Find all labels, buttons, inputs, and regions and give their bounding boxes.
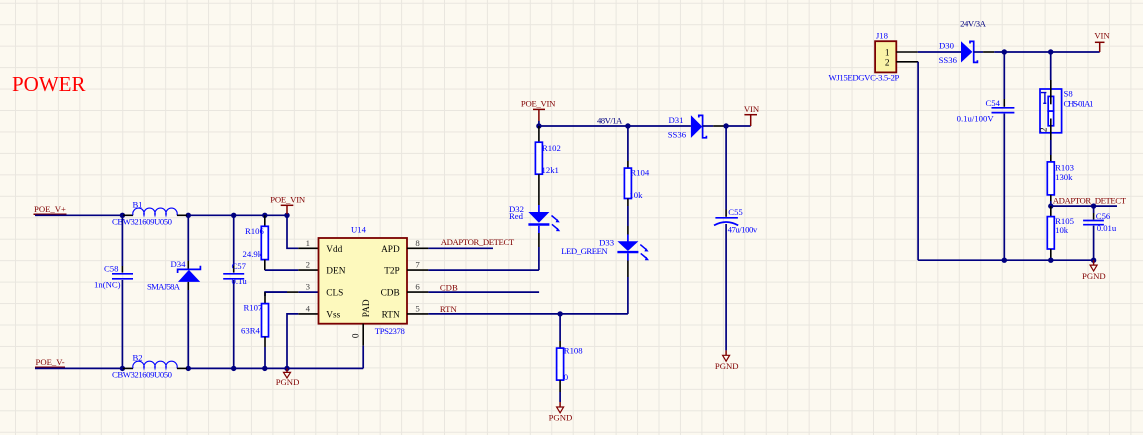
svg-text:7: 7 bbox=[415, 260, 420, 270]
wire J18 pin1 bbox=[896, 51, 961, 53]
svg-text:D31: D31 bbox=[669, 115, 684, 125]
diode D34 SMAJ58A bbox=[147, 215, 200, 368]
svg-text:APD: APD bbox=[381, 245, 400, 255]
resistor R108 bbox=[557, 314, 584, 402]
svg-text:4: 4 bbox=[306, 303, 311, 313]
wire pin4 Vss bbox=[287, 314, 320, 369]
connector J18 bbox=[829, 30, 900, 82]
net ADAPTOR_DETECT right bbox=[1048, 196, 1127, 209]
wire pin6 CDB bbox=[407, 282, 539, 292]
svg-text:POE_VIN: POE_VIN bbox=[270, 194, 306, 204]
op-amp U14 TPS2378 bbox=[306, 225, 421, 339]
inductor B1 bbox=[112, 200, 187, 227]
svg-text:CHS-01A1: CHS-01A1 bbox=[1064, 99, 1094, 109]
svg-text:Red: Red bbox=[509, 211, 524, 221]
wire POE_V- rail bbox=[35, 367, 363, 369]
wire pin7 T2P bbox=[407, 269, 539, 271]
svg-text:T2P: T2P bbox=[384, 267, 400, 277]
LED D32 Red bbox=[509, 204, 560, 270]
wire 48V rail bbox=[536, 115, 691, 128]
svg-text:10k: 10k bbox=[1055, 225, 1069, 235]
svg-text:12k1: 12k1 bbox=[542, 165, 559, 175]
capacitor C55 bbox=[714, 126, 758, 350]
svg-text:C55: C55 bbox=[728, 207, 742, 217]
capacitor C54 bbox=[957, 52, 1015, 260]
svg-text:24V/3A: 24V/3A bbox=[960, 18, 987, 28]
port VIN right bbox=[1094, 30, 1110, 52]
svg-text:R102: R102 bbox=[542, 143, 561, 153]
wire bottom rail right bbox=[918, 258, 1096, 263]
resistor R106 bbox=[243, 215, 269, 270]
wire POE_V+ rail bbox=[35, 214, 287, 216]
svg-text:C56: C56 bbox=[1096, 211, 1111, 221]
svg-text:PGND: PGND bbox=[549, 413, 573, 423]
wire 24V rail bbox=[994, 49, 1099, 54]
svg-text:POWER: POWER bbox=[12, 72, 86, 96]
svg-text:D34: D34 bbox=[171, 259, 187, 269]
capacitor C58 bbox=[94, 215, 133, 368]
svg-text:U14: U14 bbox=[351, 225, 367, 235]
svg-text:R106: R106 bbox=[245, 226, 264, 236]
svg-text:DEN: DEN bbox=[326, 267, 345, 277]
pin 0 PAD wire bbox=[362, 324, 364, 369]
svg-text:R104: R104 bbox=[630, 168, 649, 178]
wire pin1 Vdd from POE_VIN bbox=[287, 215, 320, 248]
svg-text:ADAPTOR_DETECT: ADAPTOR_DETECT bbox=[441, 237, 515, 247]
title POWER bbox=[12, 72, 86, 96]
svg-text:CBW321609U050: CBW321609U050 bbox=[112, 370, 173, 380]
svg-text:S8: S8 bbox=[1064, 88, 1074, 98]
svg-text:10k: 10k bbox=[629, 190, 643, 200]
resistor R105 bbox=[1047, 206, 1074, 260]
svg-text:C57: C57 bbox=[232, 261, 247, 271]
svg-text:CLS: CLS bbox=[326, 289, 343, 299]
switch S8 CHS-01A1 bbox=[1040, 52, 1094, 155]
svg-text:WJ15EDGVC-3.5-2P: WJ15EDGVC-3.5-2P bbox=[829, 73, 900, 83]
ground PGND left bbox=[276, 368, 300, 387]
wire to VIN bbox=[723, 123, 750, 128]
svg-text:R108: R108 bbox=[564, 346, 583, 356]
svg-text:8: 8 bbox=[415, 238, 420, 248]
svg-text:POE_V+: POE_V+ bbox=[34, 204, 66, 214]
svg-text:3: 3 bbox=[306, 282, 311, 292]
svg-text:6: 6 bbox=[415, 282, 420, 292]
svg-text:SS36: SS36 bbox=[939, 55, 958, 65]
port POE_VIN middle bbox=[521, 98, 556, 126]
net label 24V/3A bbox=[960, 18, 987, 28]
svg-text:LED_GREEN: LED_GREEN bbox=[561, 246, 608, 256]
svg-text:POE_VIN: POE_VIN bbox=[521, 98, 556, 108]
svg-text:PAD: PAD bbox=[362, 299, 372, 317]
diode D31 SS36 bbox=[668, 115, 726, 140]
node junction dots bottom rail bbox=[120, 366, 290, 371]
svg-text:5: 5 bbox=[415, 303, 420, 313]
svg-text:POE_V-: POE_V- bbox=[36, 357, 65, 367]
LED D33 LED_GREEN bbox=[561, 237, 649, 314]
svg-text:B2: B2 bbox=[133, 353, 143, 363]
diode D30 SS36 bbox=[939, 41, 995, 65]
port VIN middle bbox=[744, 104, 760, 126]
port POE_V- bbox=[35, 357, 65, 367]
svg-text:2: 2 bbox=[306, 260, 310, 270]
svg-text:CDB: CDB bbox=[440, 282, 458, 292]
svg-text:0.1u: 0.1u bbox=[232, 276, 248, 286]
svg-text:PGND: PGND bbox=[715, 361, 739, 371]
svg-text:CBW321609U050: CBW321609U050 bbox=[112, 217, 173, 227]
svg-text:B1: B1 bbox=[133, 200, 143, 210]
svg-text:1: 1 bbox=[885, 48, 890, 58]
svg-text:PGND: PGND bbox=[1082, 271, 1106, 281]
svg-text:Vdd: Vdd bbox=[326, 245, 342, 255]
svg-text:0: 0 bbox=[564, 372, 569, 382]
svg-text:24.9k: 24.9k bbox=[243, 249, 263, 259]
capacitor C56 bbox=[1083, 206, 1117, 260]
svg-text:R107: R107 bbox=[244, 302, 263, 312]
svg-text:48V/1A: 48V/1A bbox=[597, 115, 623, 125]
resistor R104 bbox=[624, 168, 649, 243]
port POE_V+ bbox=[34, 204, 67, 214]
svg-text:RTN: RTN bbox=[440, 304, 458, 314]
ground PGND C55 bbox=[715, 350, 739, 371]
svg-text:VIN: VIN bbox=[1094, 30, 1110, 40]
wire pin2 DEN bbox=[265, 269, 320, 271]
wire pin8 APD / ADAPTOR_DETECT bbox=[407, 237, 515, 248]
resistor R102 bbox=[535, 126, 560, 213]
svg-text:PGND: PGND bbox=[276, 377, 300, 387]
capacitor C57 bbox=[223, 215, 247, 368]
svg-text:Vss: Vss bbox=[326, 311, 340, 321]
wire pin5 RTN bbox=[407, 304, 628, 317]
svg-text:C58: C58 bbox=[104, 264, 119, 274]
svg-text:47u/100v: 47u/100v bbox=[728, 225, 758, 235]
wire J18 pin2 down bbox=[896, 62, 918, 260]
svg-text:VIN: VIN bbox=[744, 104, 760, 114]
svg-text:1: 1 bbox=[306, 238, 310, 248]
ground PGND R108 bbox=[549, 402, 573, 423]
node junction dots top rail bbox=[120, 213, 290, 218]
svg-text:J18: J18 bbox=[876, 30, 889, 40]
ground PGND right bbox=[1082, 260, 1106, 281]
svg-text:ADAPTOR_DETECT: ADAPTOR_DETECT bbox=[1053, 196, 1127, 206]
svg-text:0.01u: 0.01u bbox=[1097, 223, 1117, 233]
svg-text:CDB: CDB bbox=[381, 289, 400, 299]
svg-text:2: 2 bbox=[1040, 127, 1050, 132]
svg-text:1n(NC): 1n(NC) bbox=[94, 280, 121, 290]
svg-text:SMAJ58A: SMAJ58A bbox=[147, 282, 181, 292]
svg-text:TPS2378: TPS2378 bbox=[375, 326, 406, 336]
inductor B2 bbox=[112, 353, 187, 380]
svg-text:D30: D30 bbox=[939, 41, 955, 51]
svg-text:0: 0 bbox=[351, 333, 361, 338]
port POE_VIN left bbox=[270, 194, 306, 214]
svg-text:RTN: RTN bbox=[382, 311, 400, 321]
resistor R107 bbox=[241, 292, 320, 368]
svg-text:130k: 130k bbox=[1055, 172, 1073, 182]
resistor R103 bbox=[1047, 155, 1074, 206]
svg-text:SS36: SS36 bbox=[668, 130, 687, 140]
svg-text:2: 2 bbox=[885, 59, 890, 69]
svg-text:0.1u/100V: 0.1u/100V bbox=[957, 114, 995, 124]
node 48V/1A to R104 bbox=[627, 126, 629, 168]
svg-text:C54: C54 bbox=[986, 98, 1001, 108]
svg-text:63R4: 63R4 bbox=[241, 326, 260, 336]
